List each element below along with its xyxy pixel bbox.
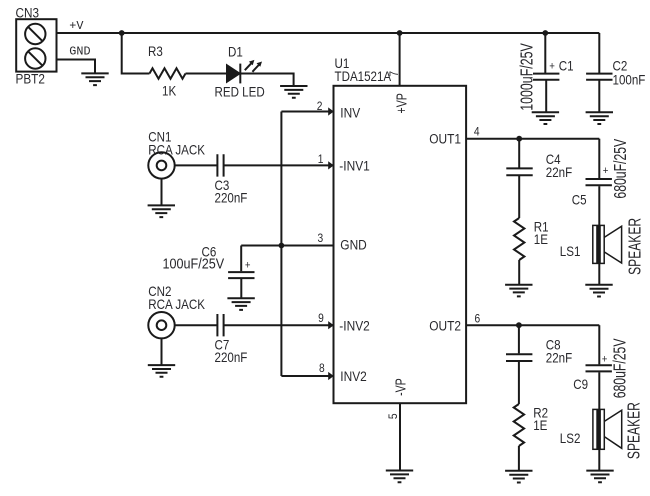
connector CN2 RCA jack symbol xyxy=(148,312,174,338)
svg-text:680uF/25V: 680uF/25V xyxy=(610,338,630,398)
svg-text:C5: C5 xyxy=(572,192,587,208)
wire LS1 to ground xyxy=(598,263,600,284)
junction +V rail to C1 branch xyxy=(542,30,548,36)
ground at U1 pin 5 xyxy=(386,471,413,483)
IC U1 value label TDA1521A xyxy=(335,68,392,84)
svg-text:SPEAKER: SPEAKER xyxy=(625,218,645,275)
capacitor C1 plates xyxy=(533,74,559,80)
wire U1 pin 5 (-VP) to ground xyxy=(399,403,401,470)
svg-text:100nF: 100nF xyxy=(613,72,646,88)
ground at C2 xyxy=(586,112,613,124)
LED D1 reference label xyxy=(228,44,243,60)
svg-text:1: 1 xyxy=(318,153,324,166)
pin name GND xyxy=(340,237,367,253)
wire CN1 shield to ground xyxy=(161,179,163,205)
LED D1 light emission arrows xyxy=(245,60,262,72)
pin arrow at U1 pin 8 xyxy=(328,372,334,380)
wire C6 to ground xyxy=(240,279,242,298)
ground at R2 xyxy=(505,471,532,483)
speaker LS2 symbol xyxy=(593,409,622,449)
ground at C6 xyxy=(227,298,254,310)
junction bus to pin 3 wire xyxy=(279,243,285,249)
svg-text:6: 6 xyxy=(475,313,481,326)
connector CN1 value label RCA JACK xyxy=(148,142,205,158)
svg-text:LS1: LS1 xyxy=(560,243,581,259)
resistor R2 zigzag xyxy=(514,404,524,446)
capacitor C7 reference label xyxy=(215,336,230,352)
pin name OUT2 xyxy=(429,317,461,333)
connector CN3 screw terminal 1 (+V) xyxy=(25,24,45,44)
wire C8 to R2 xyxy=(518,362,520,404)
speaker LS1 reference label xyxy=(560,243,581,259)
svg-text:-VP: -VP xyxy=(393,378,409,396)
connector CN1 reference label xyxy=(148,129,171,145)
wire OUT2 to C9 branch xyxy=(466,324,599,326)
capacitor C5 plates xyxy=(586,179,612,185)
ground at LED D1 cathode xyxy=(280,86,307,98)
resistor R3 zigzag xyxy=(150,68,186,78)
svg-text:+: + xyxy=(603,164,609,177)
wire CN3 GND to ground xyxy=(57,60,96,73)
wire C1 to ground xyxy=(545,81,547,112)
capacitor C4 reference label xyxy=(546,151,561,167)
ground at LS2 xyxy=(586,471,613,483)
connector CN3 reference label xyxy=(16,5,39,21)
wire CN2 to C7 xyxy=(175,324,218,326)
svg-text:5: 5 xyxy=(387,413,400,419)
svg-text:TDA1521A: TDA1521A xyxy=(335,68,392,84)
capacitor C7 plates xyxy=(217,314,223,336)
wire U1 pin 3 GND to C6 branch xyxy=(241,245,333,247)
pin name INV xyxy=(340,105,360,121)
pin number 3 xyxy=(318,232,324,245)
capacitor C6 value label 100uF/25V xyxy=(163,255,225,272)
pin arrow at U1 pin 9 xyxy=(328,321,334,329)
pin number 5 (rotated) xyxy=(387,413,400,419)
pin number 2 xyxy=(317,100,323,113)
svg-text:GND: GND xyxy=(340,237,367,253)
capacitor C7 value label 220nF xyxy=(215,349,248,365)
wire R2 to ground xyxy=(518,446,520,470)
svg-text:4: 4 xyxy=(474,126,480,139)
wire C3 to U1 pin 1 xyxy=(224,164,334,166)
resistor R1 zigzag xyxy=(514,218,524,260)
net label +V xyxy=(69,19,84,33)
ground at CN3 GND terminal xyxy=(81,73,108,85)
wire D1 cathode to ground xyxy=(240,74,293,86)
svg-text:D1: D1 xyxy=(228,44,243,60)
wire R3 to D1 anode xyxy=(186,73,227,75)
capacitor C6 plates xyxy=(228,272,254,278)
svg-text:GND: GND xyxy=(69,45,90,59)
capacitor C1 reference label xyxy=(559,58,574,74)
resistor R2 value label 1E xyxy=(533,417,547,433)
pin number 4 xyxy=(474,126,480,139)
svg-text:+: + xyxy=(602,353,608,366)
connector CN3 terminal block body xyxy=(16,19,56,71)
connector CN2 value label RCA JACK xyxy=(148,296,205,312)
svg-text:8: 8 xyxy=(319,362,325,375)
speaker LS2 value label SPEAKER (rotated) xyxy=(624,402,644,459)
capacitor C4 value label 22nF xyxy=(546,164,573,180)
svg-text:9: 9 xyxy=(318,312,324,325)
wire bus to U1 pin 2 xyxy=(281,111,333,113)
wire +V rail branch down to C2 xyxy=(598,33,600,73)
wire +V junction down to R3 xyxy=(122,33,150,74)
ground at CN1 shield xyxy=(148,205,175,217)
wire OUT2 junction down to C8 xyxy=(518,325,520,353)
wire OUT2 branch down to C9 xyxy=(598,325,600,364)
connector CN1 RCA jack symbol xyxy=(148,152,174,178)
ground at C1 xyxy=(532,112,559,124)
svg-text:INV2: INV2 xyxy=(340,368,367,384)
capacitor C5 value label 680uF/25V (rotated) xyxy=(611,138,631,198)
resistor R1 value label 1E xyxy=(534,231,548,247)
svg-text:1K: 1K xyxy=(162,83,177,99)
resistor R1 reference label xyxy=(534,219,549,235)
wire C2 to ground xyxy=(598,81,600,112)
svg-text:C1: C1 xyxy=(559,58,574,74)
svg-text:1E: 1E xyxy=(534,231,548,247)
capacitor C4 plates xyxy=(506,168,532,175)
svg-text:INV: INV xyxy=(340,105,360,121)
capacitor C6 polarity mark xyxy=(245,259,251,272)
junction +V rail to U1 pin 7 (+VP) xyxy=(397,30,403,36)
wire OUT1 to C5 branch xyxy=(466,138,599,140)
wire down to C6 xyxy=(240,246,242,272)
svg-text:SPEAKER: SPEAKER xyxy=(624,402,644,459)
wire CN1 to C3 xyxy=(175,164,218,166)
wire +V rail from CN3 to C2 branch xyxy=(57,32,600,34)
wire C5 to LS1 xyxy=(598,186,600,225)
pin number 7 (rotated) xyxy=(388,71,401,77)
net label GND xyxy=(69,45,90,59)
capacitor C9 reference label xyxy=(573,376,588,392)
ground at CN2 shield xyxy=(148,365,175,377)
svg-text:OUT2: OUT2 xyxy=(429,317,461,333)
svg-text:OUT1: OUT1 xyxy=(429,131,461,147)
svg-text:-INV2: -INV2 xyxy=(339,317,369,333)
capacitor C9 plates xyxy=(586,365,612,371)
resistor R3 value label 1K xyxy=(162,83,177,99)
capacitor C8 plates xyxy=(506,354,532,361)
svg-text:100uF/25V: 100uF/25V xyxy=(163,255,225,272)
capacitor C3 plates xyxy=(217,154,223,176)
svg-text:2: 2 xyxy=(317,100,323,113)
svg-text:1000uF/25V: 1000uF/25V xyxy=(517,43,537,111)
connector CN3 value label PBT2 xyxy=(16,71,45,87)
ground at LS1 xyxy=(585,285,612,297)
op-amp IC U1 TDA1521A body xyxy=(334,86,467,403)
pin number 8 xyxy=(319,362,325,375)
junction +V rail to R3 branch xyxy=(119,30,125,36)
wire bus to U1 pin 8 xyxy=(281,375,333,377)
pin arrow at U1 pin 2 xyxy=(328,107,334,115)
wire C9 to LS2 xyxy=(598,372,600,409)
pin name -VP (rotated) xyxy=(393,378,409,396)
svg-text:680uF/25V: 680uF/25V xyxy=(611,138,631,198)
svg-text:220nF: 220nF xyxy=(215,190,248,206)
speaker LS1 symbol xyxy=(593,225,622,263)
pin name +VP (rotated) xyxy=(394,93,410,113)
wire +V rail to U1 pin 7 (+VP) xyxy=(399,33,401,86)
connector CN3 screw terminal 2 (GND) xyxy=(25,48,45,68)
capacitor C2 reference label xyxy=(613,58,628,74)
svg-text:3: 3 xyxy=(318,232,324,245)
pin number 1 xyxy=(318,153,324,166)
svg-text:RCA JACK: RCA JACK xyxy=(148,296,205,312)
capacitor C2 plates xyxy=(586,74,612,80)
speaker LS1 value label SPEAKER (rotated) xyxy=(625,218,645,275)
svg-text:C9: C9 xyxy=(573,376,588,392)
capacitor C5 polarity mark xyxy=(603,164,609,177)
svg-text:-INV1: -INV1 xyxy=(339,158,369,174)
wire C4 to R1 xyxy=(518,176,520,218)
svg-text:R3: R3 xyxy=(148,43,163,59)
capacitor C1 value label 1000uF/25V (rotated) xyxy=(517,43,537,111)
pin number 9 xyxy=(318,312,324,325)
wire OUT1 junction down to C4 xyxy=(518,139,520,168)
resistor R3 reference label xyxy=(148,43,163,59)
wire CN2 shield to ground xyxy=(161,338,163,364)
junction OUT1 to C4 branch xyxy=(516,136,522,142)
capacitor C9 value label 680uF/25V (rotated) xyxy=(610,338,630,398)
svg-text:22nF: 22nF xyxy=(546,164,573,180)
capacitor C3 reference label xyxy=(215,177,230,193)
svg-text:LS2: LS2 xyxy=(560,430,581,446)
capacitor C8 value label 22nF xyxy=(546,349,573,365)
svg-text:RCA JACK: RCA JACK xyxy=(148,142,205,158)
capacitor C2 value label 100nF xyxy=(613,72,646,88)
svg-text:220nF: 220nF xyxy=(215,349,248,365)
capacitor C3 value label 220nF xyxy=(215,190,248,206)
wire LS2 to ground xyxy=(598,449,600,470)
pin arrow at U1 pin 1 xyxy=(328,161,334,169)
svg-text:22nF: 22nF xyxy=(546,349,573,365)
pin name INV2 xyxy=(340,368,367,384)
LED D1 value label RED LED xyxy=(215,84,265,100)
wire C7 to U1 pin 9 xyxy=(224,324,334,326)
pin name -INV2 xyxy=(339,317,369,333)
junction OUT2 to C8 branch xyxy=(516,322,522,328)
connector CN2 reference label xyxy=(148,283,171,299)
capacitor C1 polarity mark xyxy=(549,60,555,73)
capacitor C8 reference label xyxy=(546,336,561,352)
speaker LS2 reference label xyxy=(560,430,581,446)
pin name OUT1 xyxy=(429,131,461,147)
capacitor C6 reference label xyxy=(202,244,217,260)
svg-text:1E: 1E xyxy=(533,417,547,433)
pin number 6 xyxy=(475,313,481,326)
ground at R1 xyxy=(505,285,532,297)
wire OUT1 branch down to C5 xyxy=(598,139,600,178)
capacitor C9 polarity mark xyxy=(602,353,608,366)
svg-text:+: + xyxy=(549,60,555,73)
resistor R2 reference label xyxy=(533,405,548,421)
svg-text:PBT2: PBT2 xyxy=(16,71,45,87)
pin name -INV1 xyxy=(339,158,369,174)
LED D1 triangle and cathode bar xyxy=(227,64,241,84)
svg-text:+V: +V xyxy=(69,19,84,33)
IC U1 reference label xyxy=(335,55,350,71)
wire bus connecting pins 2, 3, 8 xyxy=(280,112,282,377)
capacitor C5 reference label xyxy=(572,192,587,208)
svg-text:RED LED: RED LED xyxy=(215,84,265,100)
svg-text:+VP: +VP xyxy=(394,93,410,113)
svg-text:+: + xyxy=(245,259,251,272)
wire R1 to ground xyxy=(518,260,520,284)
wire +V rail down to C1 xyxy=(544,33,546,73)
